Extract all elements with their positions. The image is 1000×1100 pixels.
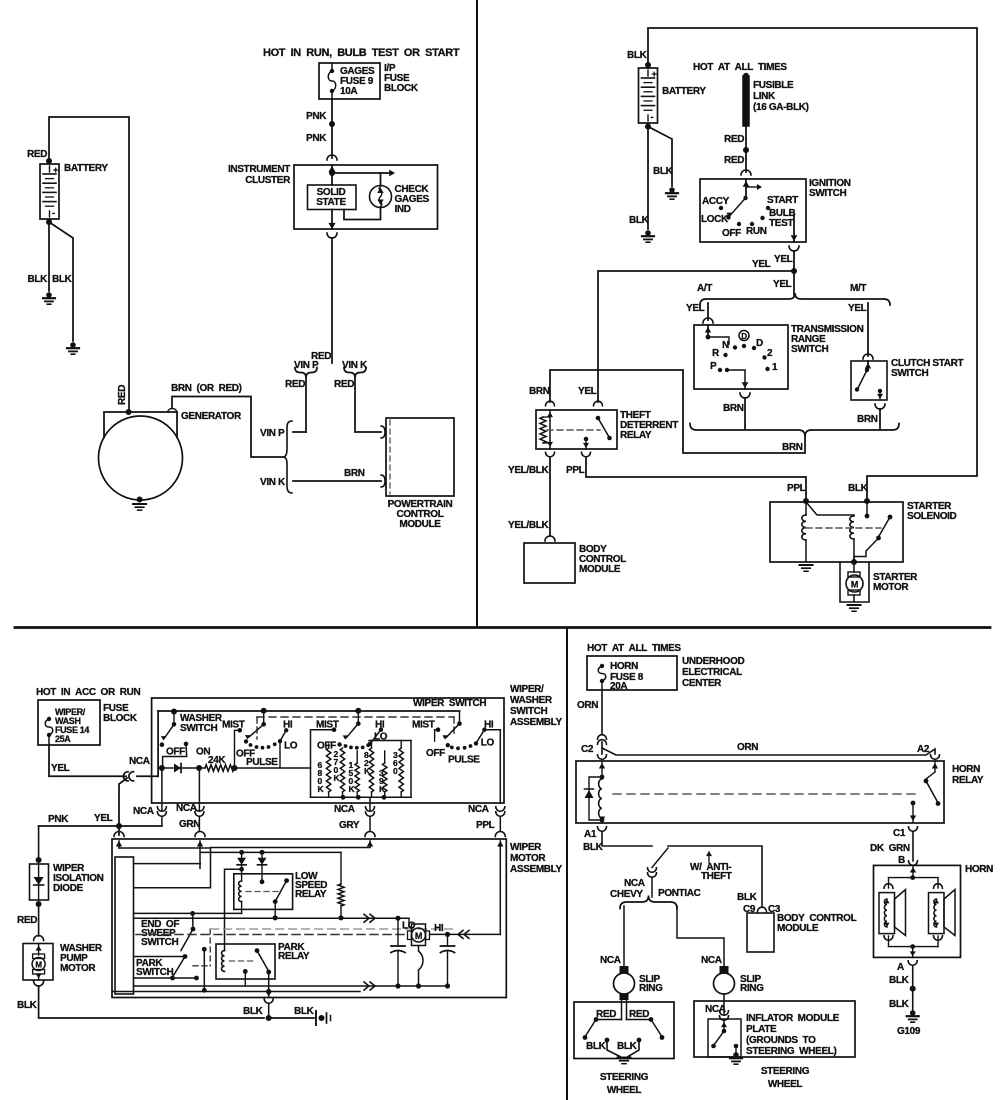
inline connector C100 (123, 772, 128, 781)
junction capacitor2 tap (445, 932, 450, 937)
svg-text:BLK: BLK (627, 50, 648, 61)
output GRY below switch box (369, 797, 371, 810)
svg-text:NCA: NCA (600, 955, 621, 966)
park relay box (216, 944, 275, 979)
svg-text:NCA: NCA (334, 804, 355, 815)
connector below washer pump (34, 981, 44, 986)
wire TRS to BRN brace (744, 398, 746, 429)
generator G1 (104, 412, 177, 438)
horn relay diode parallel (589, 777, 602, 820)
svg-text:VIN K: VIN K (260, 477, 286, 488)
svg-text:LO: LO (481, 738, 495, 749)
row wire to resistor network (235, 767, 311, 769)
wire fusible link to ignition switch (RED) (745, 125, 747, 172)
wire ORN to horn relay C2 (601, 742, 603, 754)
svg-text:START: START (767, 195, 798, 206)
battery B1 (top-left) (46, 158, 52, 164)
svg-text:GRY: GRY (339, 820, 360, 831)
svg-text:BLOCK: BLOCK (103, 713, 138, 724)
fusible link (16 GA-BLK) (743, 73, 749, 79)
connector at horn B (909, 861, 918, 866)
svg-text:RED: RED (27, 149, 47, 160)
park relay output to ground (268, 972, 270, 997)
svg-text:STEERING: STEERING (600, 1072, 649, 1083)
wiper motor symbol (412, 924, 426, 946)
slip ring 1 (620, 966, 629, 973)
svg-text:ASSEMBLY: ASSEMBLY (510, 717, 563, 728)
LO output line (134, 917, 410, 919)
steering wheel box 2 (694, 1001, 855, 1057)
svg-text:RED: RED (629, 1009, 649, 1020)
svg-text:OFF: OFF (722, 228, 741, 239)
fuse GAGES FUSE 9 10A (331, 63, 333, 70)
connector at inflator (720, 1011, 729, 1016)
ignition switch box (700, 179, 806, 242)
ignition switch internals (745, 179, 747, 198)
ground second branch (70, 342, 76, 348)
park switch contacts (134, 977, 197, 979)
svg-text:YEL: YEL (94, 813, 113, 824)
horn internal feed (912, 865, 914, 877)
steering wheel box 1 (574, 1002, 674, 1059)
starter solenoid box (770, 502, 903, 562)
relay A2 entry arrow and switch (934, 761, 936, 772)
wire connector into wiper switch box (137, 775, 158, 777)
diode to low speed relay coil (241, 852, 243, 857)
junction 24K output / MIST1 (232, 765, 238, 771)
svg-text:BLK: BLK (737, 892, 758, 903)
svg-text:HOT AT ALL TIMES: HOT AT ALL TIMES (693, 62, 787, 73)
svg-text:MIST: MIST (412, 720, 435, 731)
solenoid BLK input junction (864, 498, 870, 504)
branch diode1 to park relay coil (225, 869, 242, 950)
underhood electrical center box (587, 656, 677, 690)
battery B2 negative junction (645, 124, 651, 130)
svg-text:C1: C1 (893, 828, 906, 839)
check gages indicator lamp (380, 173, 382, 186)
rotary3 contact arc (446, 743, 450, 747)
svg-text:CLUSTER: CLUSTER (245, 175, 291, 186)
low speed relay switch (284, 878, 289, 883)
svg-text:20A: 20A (610, 681, 627, 692)
svg-text:BLK: BLK (653, 166, 674, 177)
theft relay coil (549, 410, 551, 449)
branch to wiper cam plate (134, 863, 201, 865)
svg-text:PULSE: PULSE (246, 757, 278, 768)
svg-text:-: - (52, 208, 55, 218)
wiper rotary switch 3 (459, 711, 461, 724)
wire horn to G109 (BLK) (912, 966, 914, 1011)
svg-text:BLK: BLK (27, 274, 48, 285)
junction capacitor1 tap (395, 916, 400, 921)
svg-text:SWITCH: SWITCH (791, 344, 828, 355)
svg-text:MOTOR: MOTOR (873, 582, 909, 593)
wiper rotary switch 2 (355, 708, 361, 714)
svg-text:PLATE: PLATE (746, 1024, 777, 1035)
wire battery- second branch (BLK) (49, 222, 73, 341)
wire battery+ to top rail to generator (RED) (49, 117, 129, 412)
svg-text:-: - (651, 112, 654, 122)
LO line elbow to motor (409, 918, 412, 927)
svg-text:A1: A1 (584, 829, 597, 840)
svg-text:PONTIAC: PONTIAC (658, 888, 701, 899)
junction diode1 top (239, 850, 244, 855)
fuse HORN FUSE 8 20A (600, 664, 604, 668)
ground steering wheel 1 (618, 1057, 631, 1059)
svg-text:(GROUNDS TO: (GROUNDS TO (746, 1035, 816, 1046)
junction PNK splice (329, 121, 335, 127)
connector below TRS (740, 393, 750, 398)
svg-text:BRN: BRN (344, 468, 365, 479)
junction ON/diode (159, 765, 165, 771)
svg-text:BLK: BLK (889, 999, 910, 1010)
svg-text:WHEEL: WHEEL (768, 1079, 803, 1090)
svg-text:BLK: BLK (294, 1006, 315, 1017)
svg-text:RED: RED (17, 915, 37, 926)
svg-text:PPL: PPL (566, 465, 585, 476)
fuse WIPER/WASH FUSE 14 25A (47, 717, 51, 721)
svg-text:BLK: BLK (586, 1041, 607, 1052)
svg-text:MOTOR: MOTOR (60, 963, 96, 974)
wire PNK/YEL horizontal (39, 825, 162, 827)
svg-text:GENERATOR: GENERATOR (181, 411, 242, 422)
svg-text:LO: LO (374, 732, 388, 743)
low speed relay dashed link (246, 891, 281, 893)
wire fuse to instrument cluster (PNK) (331, 99, 333, 158)
svg-text:BRN: BRN (782, 442, 803, 453)
fuse block box (wiper) (38, 700, 100, 745)
svg-text:RED: RED (724, 155, 744, 166)
output GRN below switch box (198, 768, 200, 803)
svg-text:RED: RED (596, 1009, 616, 1020)
svg-text:MODULE: MODULE (579, 564, 621, 575)
svg-text:ACCY: ACCY (702, 196, 730, 207)
body control module box (horn) (747, 913, 774, 952)
inflator switch (723, 1021, 725, 1031)
ignition output wire with arrow (793, 215, 795, 242)
svg-text:BRN (OR RED): BRN (OR RED) (171, 383, 242, 394)
wire A/T branch YEL to TRS (707, 303, 709, 320)
connector at ignition switch (741, 170, 751, 175)
cluster exit arrow (331, 210, 333, 230)
svg-text:A2: A2 (917, 744, 930, 755)
connector at washer pump (34, 936, 44, 941)
motor brush curve to ground line (419, 946, 424, 987)
wire M/T branch YEL to clutch switch (867, 303, 869, 356)
ground battery2 branch (669, 187, 675, 193)
svg-text:BRN: BRN (723, 403, 744, 414)
svg-text:1: 1 (772, 362, 778, 373)
junction RED splice (743, 147, 749, 153)
wire YEL to theft deterrent relay (598, 271, 794, 402)
wire battery- to ground (BLK) (48, 222, 50, 291)
theft deterrent relay box (536, 410, 617, 449)
relay dashed link (613, 793, 918, 795)
horn coil left (888, 878, 890, 888)
svg-text:RED: RED (724, 134, 744, 145)
relay C2 entry arrow (601, 761, 603, 777)
wire ON contact to junction (163, 744, 187, 766)
inflator module inner box (708, 1019, 741, 1057)
svg-text:HOT IN RUN, BULB TEST OR: HOT IN RUN, BULB TEST OR START (263, 47, 460, 59)
resistor network top rail (369, 740, 411, 742)
svg-text:10A: 10A (340, 86, 357, 97)
low speed relay box (234, 874, 293, 910)
horn box (874, 865, 961, 957)
junction YEL splice (791, 268, 797, 274)
svg-text:YEL: YEL (773, 279, 792, 290)
theft relay dashed link (547, 429, 600, 431)
svg-text:INFLATOR MODULE: INFLATOR MODULE (746, 1013, 840, 1024)
svg-text:ELECTRICAL: ELECTRICAL (682, 667, 742, 678)
resistor network right riser (410, 741, 412, 798)
wiper isolation diode box (30, 864, 49, 900)
wiper cam plate (tall rectangle) (115, 857, 134, 994)
end of sweep line (134, 912, 242, 914)
wire washer pump to ground line (BLK) (39, 986, 264, 1018)
junction resistor output (338, 915, 343, 920)
washer switch ON contact (184, 742, 189, 747)
svg-text:RING: RING (740, 983, 764, 994)
body control module box (top right) (524, 543, 575, 583)
wire to check gages branch with arrow (332, 172, 390, 174)
anti-theft variant switch (652, 848, 668, 868)
junction dots bottom rail (341, 795, 346, 800)
svg-text:BLK: BLK (617, 1041, 638, 1052)
svg-text:DK GRN: DK GRN (870, 843, 910, 854)
svg-text:YEL: YEL (51, 763, 70, 774)
wire generator BRN (OR RED) to VIN braces (172, 397, 283, 458)
wire HI3 to PPL output (484, 730, 500, 804)
svg-text:A: A (897, 962, 904, 973)
park relay coil (221, 951, 224, 972)
wire VIN K branch (RED) (355, 376, 381, 432)
wire VIN K to PCM (BRN) (293, 480, 381, 482)
svg-text:BRN: BRN (857, 414, 878, 425)
svg-text:RELAY: RELAY (278, 951, 310, 962)
connector at TRS entry (703, 318, 713, 323)
divider vertical bottom (566, 628, 568, 1100)
svg-text:RING: RING (639, 983, 663, 994)
PCM connector arcs (381, 426, 385, 438)
svg-text:C2: C2 (581, 744, 594, 755)
wiper motor assembly box (112, 839, 506, 998)
wire theft relay PPL to starter solenoid (586, 457, 806, 500)
svg-text:THEFT: THEFT (701, 871, 732, 882)
low speed relay coil (239, 881, 242, 902)
park relay switch (255, 948, 260, 953)
ignition pivot and lever to LOCK (743, 196, 747, 200)
wire CHEVY branch to slip ring 1 (623, 906, 625, 966)
capacitor 1 (397, 918, 399, 946)
svg-text:RELAY: RELAY (952, 775, 984, 786)
svg-text:PPL: PPL (476, 820, 495, 831)
svg-text:MODULE: MODULE (777, 923, 819, 934)
wire VIN P branch (RED) (305, 376, 307, 432)
svg-text:YEL: YEL (774, 254, 793, 265)
horn relay box (576, 761, 944, 823)
svg-text:ORN: ORN (577, 700, 598, 711)
svg-text:STATE: STATE (316, 197, 346, 208)
connector chevrons bottom bus (364, 982, 369, 990)
rotary1 LO drop to row (279, 741, 281, 768)
rotary2 contact arc (337, 742, 341, 746)
connector at clutch switch entry (863, 354, 873, 359)
svg-text:PNK: PNK (48, 814, 69, 825)
YEL feed wire inside assembly to cam plate (119, 848, 211, 888)
svg-text:BATTERY: BATTERY (64, 163, 108, 174)
svg-text:BLK: BLK (583, 842, 604, 853)
svg-text:LOCK: LOCK (701, 214, 729, 225)
svg-text:RUN: RUN (746, 226, 767, 237)
svg-text:BLK: BLK (17, 1000, 38, 1011)
connector below ignition switch (789, 246, 799, 251)
junction YEL/PNK at motor feed (116, 823, 122, 829)
svg-text:BLOCK: BLOCK (384, 83, 419, 94)
svg-text:K: K (318, 784, 325, 794)
svg-text:HOT IN ACC OR RUN: HOT IN ACC OR RUN (36, 687, 140, 698)
solenoid coil 1 (805, 502, 807, 515)
HI line from motor (430, 933, 501, 935)
svg-text:BLK: BLK (889, 975, 910, 986)
junction inside cluster (329, 170, 335, 176)
svg-text:YEL/BLK: YEL/BLK (508, 520, 549, 531)
wire clutch switch BRN to brace (879, 409, 881, 429)
connector chevrons on LO line (364, 914, 369, 922)
svg-text:VIN P: VIN P (294, 360, 319, 371)
svg-text:NCA: NCA (701, 955, 722, 966)
svg-text:VIN P: VIN P (260, 428, 285, 439)
svg-text:PNK: PNK (306, 133, 327, 144)
svg-text:NCA: NCA (176, 803, 197, 814)
svg-text:SOLENOID: SOLENOID (907, 511, 957, 522)
svg-text:G109: G109 (897, 1026, 921, 1037)
solenoid switch (888, 515, 893, 520)
svg-text:BLK: BLK (243, 1006, 264, 1017)
junction BLK ground wire (266, 1015, 272, 1021)
svg-text:RED: RED (334, 379, 354, 390)
powertrain control module box (386, 418, 454, 496)
svg-text:STEERING WHEEL): STEERING WHEEL) (746, 1046, 837, 1057)
rotary1 contact arc OFF..LO (244, 739, 248, 743)
connector at BCM (545, 536, 555, 541)
svg-text:MOTOR: MOTOR (510, 853, 546, 864)
slip ring 1 lower contact (620, 994, 629, 1000)
svg-text:PNK: PNK (306, 111, 327, 122)
svg-text:BLK: BLK (52, 274, 73, 285)
relay A1 exit arrow (601, 818, 603, 823)
svg-text:WIPER SWITCH: WIPER SWITCH (413, 698, 486, 709)
svg-text:25A: 25A (55, 734, 71, 744)
ground at battery B1 main (46, 292, 52, 298)
horn coil right (937, 878, 939, 888)
svg-text:STEERING: STEERING (761, 1066, 810, 1077)
wire cluster to VIN splice (RED) (331, 238, 333, 363)
svg-text:ORN: ORN (737, 742, 758, 753)
svg-text:2: 2 (767, 348, 773, 359)
wire battery2- diag branch (BLK) (648, 127, 672, 187)
junction GRN tap (196, 765, 202, 771)
wire fuse ORN down (601, 690, 603, 734)
branch to wiper motor assembly (diagonal) (119, 778, 127, 835)
washer pump motor box (23, 944, 53, 981)
svg-text:WIPER: WIPER (510, 842, 542, 853)
svg-text:INSTRUMENT: INSTRUMENT (228, 164, 290, 175)
svg-text:(16 GA-BLK): (16 GA-BLK) (753, 102, 809, 113)
assembly bottom bus wire (134, 985, 448, 987)
cluster entry arrow (331, 165, 333, 185)
horn switch ground hooks (605, 1038, 610, 1043)
connector below anti-theft switch (648, 868, 657, 873)
svg-text:UNDERHOOD: UNDERHOOD (682, 656, 745, 667)
theft relay switch (596, 416, 601, 421)
svg-text:HOT AT ALL TIMES: HOT AT ALL TIMES (587, 643, 681, 654)
junction at solenoid output (851, 559, 857, 565)
horn relay coil (599, 779, 602, 818)
svg-text:BRN: BRN (529, 386, 550, 397)
svg-text:B: B (898, 855, 905, 866)
svg-text:RED: RED (117, 385, 128, 405)
wire PONTIAC branch to slip ring 2 (677, 906, 724, 966)
junction at diode top (36, 857, 42, 863)
wire diode to washer pump (RED) (38, 904, 40, 936)
connector arcs below relay (598, 827, 607, 832)
wire ignition to YEL junction (793, 251, 795, 295)
end of sweep switch (190, 911, 195, 916)
wiper rotary switch 1 pivot (261, 708, 267, 714)
svg-text:HI: HI (283, 720, 293, 731)
connector at instrument cluster entry (327, 155, 337, 160)
main dashed mechanical line (136, 934, 407, 936)
I/P fuse block box (319, 63, 380, 99)
capacitor 2 (447, 934, 449, 946)
svg-text:VIN K: VIN K (342, 360, 368, 371)
junction diode bottom (36, 901, 42, 907)
connector below horn A (908, 961, 917, 966)
diode to relay switch (261, 852, 263, 857)
junction relay switch output (273, 915, 278, 920)
svg-text:M/T: M/T (850, 283, 866, 294)
svg-text:HORN: HORN (952, 764, 980, 775)
diode bus from GRN riser (200, 851, 341, 853)
TRS entry arrow and internals (707, 325, 709, 337)
horn bottom bus (889, 946, 939, 948)
svg-text:M: M (35, 961, 42, 970)
svg-text:P: P (710, 361, 717, 372)
svg-text:BATTERY: BATTERY (662, 86, 706, 97)
connector arcs below theft relay (546, 452, 555, 457)
solenoid dashed link (806, 527, 881, 529)
wire to chassis ground (269, 1017, 314, 1019)
svg-text:WIPER/: WIPER/ (510, 684, 544, 695)
svg-text:A/T: A/T (697, 283, 712, 294)
washer switch OFF contact (160, 742, 165, 747)
svg-text:DIODE: DIODE (53, 883, 84, 894)
svg-text:FUSIBLE: FUSIBLE (753, 80, 794, 91)
connector chevrons HI line (458, 930, 463, 938)
clutch switch internals (867, 361, 869, 370)
arrow W/ ANTI-THEFT (708, 852, 710, 863)
dashed mechanical links top (257, 716, 454, 718)
battery B2 (645, 62, 651, 68)
svg-text:SWITCH: SWITCH (809, 188, 846, 199)
svg-text:NCA: NCA (129, 756, 150, 767)
svg-text:0: 0 (393, 766, 398, 776)
svg-text:D: D (756, 338, 763, 349)
svg-text:SWITCH: SWITCH (136, 967, 173, 978)
assembly entry arcs and arrows (114, 832, 124, 837)
diode in washer feed (162, 767, 173, 769)
